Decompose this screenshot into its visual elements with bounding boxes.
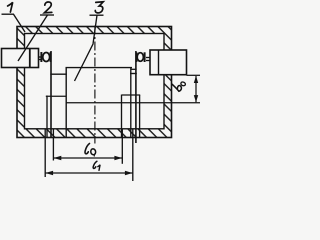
l1 right extension line	[132, 129, 134, 181]
right bracket step	[122, 94, 140, 96]
left indicator stem	[39, 57, 42, 60]
b0 dimension line	[194, 76, 198, 103]
l1 dimension line	[45, 171, 133, 176]
label 1	[2, 2, 26, 32]
right ball contact	[136, 52, 144, 62]
b0 extension from box bottom	[187, 74, 201, 76]
l0 right extension line	[121, 129, 123, 164]
l1 left extension line	[44, 129, 46, 177]
label 2	[18, 2, 54, 61]
left bracket outer edge	[46, 96, 48, 138]
b0 label	[171, 77, 187, 92]
specimen left edge	[65, 68, 67, 138]
specimen right edge	[130, 68, 132, 138]
l0 dimension line	[53, 156, 122, 161]
left tab bottom	[50, 73, 67, 75]
right tab bottom	[130, 73, 137, 75]
right grip column face	[135, 51, 137, 143]
left ball contact	[41, 52, 50, 62]
left grip column face	[50, 51, 52, 138]
specimen top edge	[66, 67, 133, 69]
left bracket step	[46, 95, 66, 97]
label 3	[75, 2, 104, 81]
right indicator stem	[146, 58, 150, 61]
l0 label	[85, 144, 96, 156]
right tab top	[131, 68, 137, 70]
l1 label	[93, 161, 100, 170]
right column inner edge / l0 extension	[121, 95, 123, 138]
specimen bottom extension line (b0 reference)	[66, 102, 200, 104]
housing walls (hatched ring)	[17, 27, 172, 138]
l0 left extension line	[52, 129, 54, 161]
vertical centerline	[94, 26, 96, 144]
right indicator box	[150, 50, 187, 75]
left indicator box	[2, 49, 39, 68]
right bracket outer edge	[139, 95, 141, 138]
